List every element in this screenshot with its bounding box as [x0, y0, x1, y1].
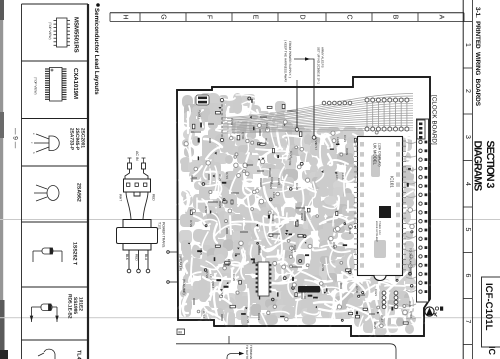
svg-text:(SPEAKER): (SPEAKER) [179, 254, 183, 271]
svg-text:C120: C120 [232, 274, 236, 282]
svg-text:C921: C921 [374, 289, 378, 297]
svg-text:C910: C910 [270, 177, 274, 185]
svg-text:C700: C700 [355, 286, 359, 294]
IC101 pin stubs [354, 141, 406, 270]
wire terminals [127, 269, 150, 273]
svg-text:H: H [122, 14, 129, 19]
svg-text:FROM POWER SUPPLY. ): FROM POWER SUPPLY. ) [288, 41, 292, 78]
svg-text:D117: D117 [380, 315, 384, 322]
partial drawing box7 [38, 349, 55, 359]
pad beside hole [435, 307, 443, 311]
svg-text:BLK: BLK [125, 254, 129, 261]
svg-text:C709: C709 [321, 264, 325, 272]
label 1SS262 [72, 242, 78, 266]
(TOP VIEW) caption box2 [34, 77, 38, 95]
top grid ruler band [110, 13, 464, 22]
IC101 inner pads [360, 142, 400, 268]
svg-text:D723: D723 [198, 110, 202, 118]
svg-text:IC: IC [487, 346, 497, 356]
svg-text:POWER TRANS.: POWER TRANS. [161, 222, 165, 248]
plug cable tab [134, 192, 140, 196]
harness wire pads [295, 128, 316, 140]
svg-text:BLU: BLU [144, 254, 148, 261]
label T101 POWER TRANSFORMER [158, 222, 166, 248]
svg-text:Q907: Q907 [258, 246, 262, 254]
svg-text:C: C [346, 14, 353, 19]
svg-text:2SC2001: 2SC2001 [80, 128, 86, 148]
heading: Semiconductor Lead Layouts [93, 8, 100, 95]
svg-text:R722: R722 [205, 271, 209, 279]
IC101 die label [375, 221, 381, 242]
header: 3-1. PRINTED WIRING BOARDS [474, 7, 481, 107]
svg-text:Q715: Q715 [409, 311, 413, 319]
lead id letters box3 [30, 133, 36, 154]
grid row numbers [464, 43, 471, 324]
svg-text:TIMER 12H: TIMER 12H [378, 221, 381, 235]
connector top pin block [417, 120, 425, 139]
svg-text:RED: RED [152, 194, 156, 201]
heading bullet [96, 3, 100, 7]
svg-text:C127: C127 [265, 123, 269, 131]
variable resistor bar [298, 286, 320, 293]
svg-text:1: 1 [464, 43, 471, 47]
svg-text:E: E [252, 15, 259, 20]
svg-text:L117: L117 [209, 274, 213, 281]
svg-text:L116: L116 [341, 173, 345, 180]
jumper wires [191, 111, 375, 321]
svg-text:L128: L128 [335, 173, 339, 180]
svg-text:C727: C727 [289, 151, 293, 159]
svg-text:C120: C120 [295, 183, 299, 191]
svg-text:R908: R908 [190, 175, 194, 183]
svg-text:G: G [160, 14, 167, 19]
mounting hole target [425, 307, 434, 316]
svg-text:Q700: Q700 [241, 132, 245, 140]
bottom pad grid [382, 291, 398, 309]
transistor drawing box4 [34, 185, 59, 201]
svg-text:L111: L111 [272, 192, 276, 199]
svg-text:D: D [299, 14, 306, 19]
svg-text:[CLOCK BOARD]: [CLOCK BOARD] [431, 95, 438, 145]
page fold line upper [0, 219, 500, 220]
wire label WHT [119, 194, 123, 201]
long bottom wire [176, 344, 396, 359]
diode drawing box5 [33, 248, 62, 262]
caution note text [284, 40, 292, 82]
svg-text:AC IN: AC IN [135, 151, 139, 161]
transformer secondary wires [129, 250, 148, 269]
svg-text:(12H DISPLAY): (12H DISPLAY) [378, 143, 382, 167]
svg-text:DIAGRAMS: DIAGRAMS [472, 141, 484, 192]
plug wires down to transformer [126, 192, 148, 219]
volume wire stub [167, 281, 177, 284]
edge connector pads [419, 140, 428, 293]
svg-text:R102: R102 [348, 227, 352, 235]
clock board outline [177, 77, 430, 336]
svg-text:88: 88 [178, 330, 182, 334]
svg-text:2: 2 [464, 89, 471, 93]
AC plug body [124, 179, 151, 192]
AC cord leads [128, 158, 146, 163]
svg-text:5: 5 [464, 228, 471, 232]
label 2SA562 [76, 183, 82, 202]
svg-text:ARMY ALE1PS: ARMY ALE1PS [320, 47, 324, 68]
model tab box lines [482, 277, 500, 347]
svg-text:SECTION 3: SECTION 3 [484, 141, 496, 189]
IC102 with side pads [256, 262, 272, 296]
right grid ruler band [463, 0, 472, 359]
component reference labels [189, 110, 413, 330]
label IC101 [390, 176, 395, 188]
film side marker box [177, 329, 185, 335]
label (VOLUME) [182, 279, 186, 295]
svg-text:B: B [392, 15, 399, 20]
IC M5M5501RS DIP package drawing [54, 18, 71, 47]
clock board outline (over texture) [177, 77, 430, 336]
svg-text:(TOP VIEW): (TOP VIEW) [34, 77, 38, 95]
svg-text:D909: D909 [345, 148, 349, 156]
IC CXA1019M SOP package drawing [45, 68, 67, 102]
svg-text:RD5.1E-B2: RD5.1E-B2 [67, 294, 73, 319]
svg-text:D125: D125 [373, 322, 377, 330]
IC101 black die [379, 206, 391, 218]
discrete component symbols [188, 97, 413, 324]
via pads [184, 120, 414, 328]
svg-text:A: A [438, 15, 445, 20]
IC101 notch [374, 276, 386, 281]
svg-text:F: F [206, 15, 213, 19]
svg-text:ICF-C101L: ICF-C101L [483, 283, 494, 331]
label (SPEAKER) [179, 254, 183, 271]
svg-text:(VOLUME): (VOLUME) [182, 279, 186, 295]
svg-text:7: 7 [464, 320, 471, 324]
IC101 outline [358, 137, 403, 276]
svg-text:2SC945-P: 2SC945-P [74, 128, 80, 151]
svg-text:T101: T101 [158, 222, 162, 230]
wire label BLU [144, 254, 148, 261]
AC plug prongs [125, 163, 148, 179]
svg-text:D717: D717 [314, 143, 318, 151]
via column line [220, 98, 223, 141]
svg-text:D924: D924 [300, 213, 304, 221]
label AC IN [135, 151, 139, 161]
connector label [409, 248, 413, 275]
bottom wire with arrow [227, 354, 239, 359]
svg-text:2SA733-P: 2SA733-P [69, 128, 75, 151]
svg-text:D128: D128 [218, 174, 222, 182]
svg-text:C727: C727 [290, 246, 294, 254]
wire label RED2 [135, 254, 139, 261]
svg-text:TO BATTERY: TO BATTERY [245, 345, 249, 359]
label TL (cut) [76, 350, 82, 359]
svg-text:2SA562: 2SA562 [76, 183, 82, 202]
model tab: ICF-C101L [483, 283, 494, 331]
svg-text:Q914: Q914 [211, 281, 215, 289]
svg-text:SS1995: SS1995 [72, 297, 78, 314]
svg-text:L122: L122 [336, 137, 340, 144]
svg-text:MSM5501RS: MSM5501RS [73, 17, 80, 53]
secondary note text [317, 47, 325, 84]
fan of clock-board traces [222, 94, 413, 134]
wire from board bottom [228, 336, 230, 344]
diode drawing box6 [30, 304, 58, 322]
title: DIAGRAMS [472, 141, 484, 192]
bottom wire label [245, 345, 253, 359]
page corner model text [487, 346, 497, 356]
svg-text:3-1. PRINTED WIRING BOARDS: 3-1. PRINTED WIRING BOARDS [474, 7, 481, 107]
svg-text:D715: D715 [225, 172, 229, 180]
trace separation channels [160, 95, 448, 343]
clock board pad rows [365, 98, 409, 131]
wire label BLK [125, 254, 129, 261]
label [CLOCK BOARD] [431, 95, 438, 145]
svg-text:Q709: Q709 [288, 158, 292, 166]
svg-text:6: 6 [464, 274, 471, 278]
label MSM5501RS [73, 17, 80, 53]
svg-text:RED: RED [135, 254, 139, 261]
svg-text:TO DISPLAY BOARD: TO DISPLAY BOARD [409, 248, 413, 275]
wire label RED [152, 194, 156, 201]
edge connector body [417, 119, 429, 302]
page fold line lower [0, 317, 500, 318]
harness wires into board [297, 87, 314, 136]
svg-text:D924: D924 [332, 242, 336, 250]
transistor TO-92 drawing box3 [34, 134, 59, 152]
resistor block R921 [196, 95, 209, 105]
svg-text:4: 4 [464, 182, 471, 186]
svg-text:C728: C728 [246, 316, 250, 324]
svg-text:TERMINAL: TERMINAL [249, 345, 253, 359]
svg-text:CXA1019M: CXA1019M [72, 68, 79, 99]
svg-text:R919: R919 [271, 214, 275, 222]
text UK MODEL (12H DISPLAY) [373, 143, 382, 167]
svg-text:C123: C123 [343, 135, 347, 143]
speaker wire stub [167, 251, 177, 254]
(TOP VIEW) caption box1 [48, 22, 52, 40]
copper trace texture blobs [179, 93, 416, 336]
svg-text:— 9 —: — 9 — [12, 128, 19, 149]
transformer T101 body [117, 220, 158, 251]
svg-text:WAKE UP/SLEEP: WAKE UP/SLEEP [375, 221, 378, 242]
pad row left group [322, 101, 352, 105]
svg-text:101E2: 101E2 [77, 297, 83, 311]
svg-text:1SS262 T: 1SS262 T [72, 242, 78, 266]
title: SECTION 3 [484, 141, 496, 189]
svg-text:Semiconductor Lead Layouts: Semiconductor Lead Layouts [93, 8, 100, 95]
lead layout table borders [22, 4, 89, 359]
svg-text:R102: R102 [295, 219, 299, 227]
label CXA1019M [72, 68, 79, 99]
svg-text:WHT: WHT [119, 194, 123, 201]
svg-text:C919: C919 [257, 313, 261, 321]
grid column letters [0, 0, 1, 1]
svg-text:C714: C714 [220, 289, 224, 297]
svg-text:D111: D111 [408, 301, 412, 308]
svg-text:D712: D712 [202, 311, 206, 319]
svg-text:C115: C115 [227, 259, 231, 266]
note leader line [296, 80, 298, 87]
note pointer arrow [294, 59, 314, 87]
labels 2SA733-P 2SC945-P 2SC2001 [69, 128, 86, 151]
svg-text:3: 3 [464, 135, 471, 139]
svg-text:D701: D701 [204, 206, 208, 214]
page number -9- [12, 128, 19, 149]
svg-text:IC101: IC101 [390, 176, 395, 188]
labels RD5.1E-B2 SS1995 101E2 [67, 294, 84, 319]
svg-text:UK MODEL: UK MODEL [373, 143, 378, 166]
screw marks [434, 313, 437, 317]
svg-text:R126: R126 [264, 138, 268, 146]
svg-text:R928: R928 [218, 201, 222, 209]
svg-text:C110: C110 [303, 292, 307, 299]
svg-text:TL431: TL431 [76, 350, 82, 359]
svg-text:( KEEP THE HARNESS AWAY: ( KEEP THE HARNESS AWAY [284, 40, 288, 82]
svg-text:C924: C924 [277, 178, 281, 186]
scanned page left edge [0, 0, 3, 359]
svg-text:C702: C702 [230, 118, 234, 126]
svg-text:SET UP NO.2CB501E 1P-1: SET UP NO.2CB501E 1P-1 [317, 47, 321, 84]
svg-text:R725: R725 [199, 248, 203, 256]
svg-text:(TOP VIEW): (TOP VIEW) [48, 22, 52, 40]
svg-text:D729: D729 [189, 220, 193, 228]
traces to edge connector [406, 142, 416, 319]
